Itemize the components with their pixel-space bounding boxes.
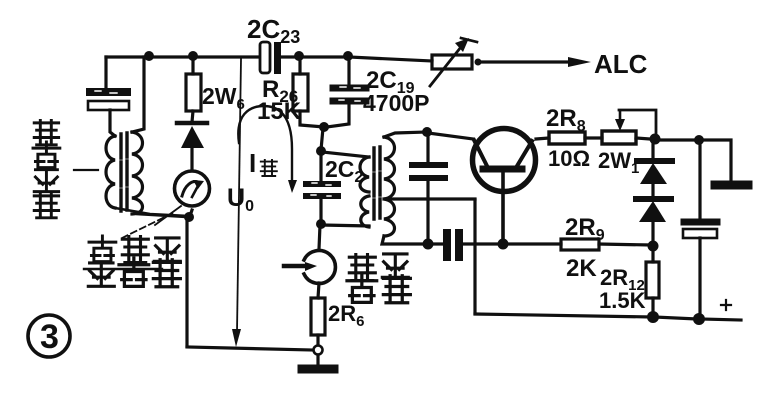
trimmer resistor ALC body <box>432 55 472 69</box>
wire D3 to meter M <box>190 148 193 170</box>
transistor Q1 base bar <box>483 166 522 173</box>
wire bottom-left rail <box>187 347 313 350</box>
node dot diodes/2R9 <box>648 241 659 252</box>
svg-text:15K: 15K <box>257 98 302 125</box>
capacitor 2C2 wire bottom <box>319 199 322 222</box>
strike smudge line <box>84 268 162 270</box>
wire 2R6 to terminal <box>316 335 319 345</box>
wire T1 secondary top to rail <box>132 57 144 132</box>
node dot 2W1 out <box>650 134 661 145</box>
node dot 2C2 bottom <box>316 219 326 229</box>
wire rail to R26 <box>298 57 301 74</box>
wire D2 to node <box>651 223 654 244</box>
svg-text:2K: 2K <box>566 255 597 282</box>
coupling capacitor wire left <box>429 242 442 245</box>
diode D3 cathode bar <box>177 121 207 126</box>
wire rail to 2W6 <box>191 57 194 74</box>
wire rail to 2C19 <box>347 57 350 83</box>
transistor Q1 circle <box>473 129 536 192</box>
node dot after trimmer <box>475 59 482 66</box>
node dot base <box>498 239 509 250</box>
label meter CJK row2 <box>88 263 114 286</box>
wire base node to 2R9 <box>505 242 561 245</box>
wire 2R9 to node <box>599 244 650 245</box>
resistor 2W6 body <box>186 74 201 111</box>
diode D2 cathode bar <box>636 196 671 202</box>
transformer T2 left winding <box>360 157 369 227</box>
leader line meter label dashed <box>122 212 175 238</box>
label I-record CJK subscript <box>261 160 277 176</box>
ground bar right <box>715 181 748 190</box>
rheostat 2W1 wiper bracket <box>619 110 656 136</box>
wire T2 mid tap to feedback <box>384 197 475 200</box>
node dot 2R12 bottom <box>647 311 659 323</box>
label head CJK row1 <box>349 255 375 281</box>
wire node to diode D1 <box>651 141 654 157</box>
wire D1 to D2 <box>651 185 654 197</box>
node dot coupling left <box>423 239 434 250</box>
label head CJK row2 <box>347 274 377 302</box>
wire node to ground right <box>700 140 731 181</box>
diode D1 triangle <box>640 163 667 184</box>
wire T2 bottom to coupling node <box>382 236 427 244</box>
transformer T1 left winding <box>106 136 115 208</box>
wire 2C2 top to T2 <box>322 152 369 157</box>
svg-text:10Ω: 10Ω <box>548 146 590 171</box>
resistor 2R6 body <box>311 298 325 335</box>
wire Q1 to 2R8 <box>536 138 549 139</box>
terminal open node <box>314 346 323 355</box>
svg-text:I: I <box>249 148 256 178</box>
svg-text:ALC: ALC <box>594 49 648 79</box>
leader line meter solid <box>155 206 181 225</box>
label meter CJK row1 <box>89 236 116 262</box>
diode D1 cathode bar <box>637 158 672 164</box>
ground bar left <box>302 365 334 374</box>
resistor R26 body <box>293 74 308 111</box>
electrolytic capacitor right wire bottom <box>698 238 701 317</box>
node dot rail-R26 <box>294 51 304 61</box>
diode D2 triangle <box>639 201 666 222</box>
coupling capacitor wire right <box>463 242 501 245</box>
tuning capacitor wire bottom <box>426 181 429 243</box>
capacitor 2C2 wire top <box>319 152 322 180</box>
wire T1 left bottom to meter node <box>115 208 188 216</box>
wire node to right node <box>660 138 697 141</box>
wire left drop from rail to C1 <box>104 57 107 88</box>
arrow ALC head <box>568 57 591 67</box>
polarity plus mark <box>721 300 731 310</box>
wire meter node down <box>185 218 188 346</box>
capacitor 2C23 body <box>260 42 281 74</box>
node dot 2C2 top <box>316 146 326 156</box>
transformer T2 right winding <box>384 137 395 236</box>
node dot rail-2W6 <box>188 51 198 61</box>
meter M circle <box>175 171 210 206</box>
electrolytic capacitor right wire top <box>698 141 701 218</box>
resistor 2R12 body <box>646 262 659 298</box>
label left vertical CJK char3 <box>34 170 58 192</box>
node dot rail-transformer <box>144 51 154 61</box>
wire feedback down <box>473 200 476 313</box>
wire node to 2R12 <box>651 247 654 262</box>
record head symbol <box>304 251 335 284</box>
wire 2C2 bottom to T2 <box>322 225 369 226</box>
wire T1 right bottom to meter node <box>137 214 187 217</box>
wire R26 bottom elbow <box>300 111 324 127</box>
transformer T1 core <box>121 133 127 211</box>
label U0 measurement line <box>237 59 241 332</box>
wire meter to node <box>190 210 192 216</box>
wire 2R12 to bottom rail <box>651 298 654 316</box>
capacitor 2C2 plates <box>306 181 338 187</box>
wire join down <box>321 128 323 150</box>
wire top rail left segment <box>106 55 259 58</box>
capacitor C-left bottom plate <box>88 101 129 110</box>
wire top rail mid segment <box>282 55 348 58</box>
transformer T1 right winding <box>132 132 143 214</box>
wire 2C19 bottom elbow <box>327 105 349 127</box>
wire terminal to ground <box>316 355 319 364</box>
tuning capacitor plates <box>412 162 445 168</box>
transformer T2 core <box>374 147 380 219</box>
wire to ALC arrow <box>481 60 568 63</box>
wire osc node to transistor <box>428 133 473 139</box>
record head arrow <box>284 264 306 269</box>
electrolytic capacitor right top plate <box>684 219 717 226</box>
arrow U0 head <box>232 329 241 347</box>
rheostat 2W1 wiper arrow <box>619 112 622 122</box>
label left vertical CJK char2 <box>33 142 60 168</box>
wire C1 to transformer T1 <box>110 110 115 136</box>
node dot cap top <box>694 135 704 145</box>
wire rail to ALC trimmer <box>349 57 432 61</box>
node dot R26/2C19 join <box>319 122 329 132</box>
node dot cap bottom <box>693 313 705 325</box>
electrolytic capacitor right bottom plate <box>683 229 717 238</box>
figure number circle 3 <box>28 315 70 357</box>
trimmer ALC diagonal arrow <box>430 47 461 86</box>
tuning capacitor wire top <box>426 133 429 161</box>
wire head to 2R6 <box>318 283 319 298</box>
wire 2C2 bottom down to head <box>319 225 320 249</box>
rheostat 2W1 body <box>602 131 636 144</box>
wire bottom rail right <box>475 314 741 320</box>
coupling capacitor plates <box>443 229 451 261</box>
node dot meter bottom <box>184 212 194 222</box>
svg-text:1.5K: 1.5K <box>599 288 646 313</box>
node dot osc top <box>422 127 432 137</box>
arrow I-record current arc <box>238 106 292 184</box>
svg-text:3: 3 <box>40 318 59 356</box>
capacitor 2C19 plates <box>333 85 366 92</box>
transistor Q1 collector lead <box>517 141 532 166</box>
wire 2W6 to diode D3 <box>192 111 193 122</box>
label left vertical CJK char1 <box>34 120 58 144</box>
leader dash left label <box>74 169 98 171</box>
resistor 2R9 body <box>561 239 599 250</box>
node dot rail-2C19/ALC <box>343 51 353 61</box>
capacitor C-left top plate <box>90 88 127 96</box>
label left vertical CJK char4 <box>34 193 58 217</box>
wire 2R8 to 2W1 <box>585 136 602 139</box>
meter M needle arrow <box>182 182 198 196</box>
svg-text:4700P: 4700P <box>363 90 430 116</box>
transistor Q1 base lead down <box>501 172 505 243</box>
diode D3 triangle <box>181 126 204 148</box>
wire T2 top to osc node <box>384 132 427 137</box>
transistor Q1 emitter lead <box>474 140 487 166</box>
wire 2W1 to node <box>636 138 650 139</box>
resistor 2R8 body <box>549 132 585 144</box>
